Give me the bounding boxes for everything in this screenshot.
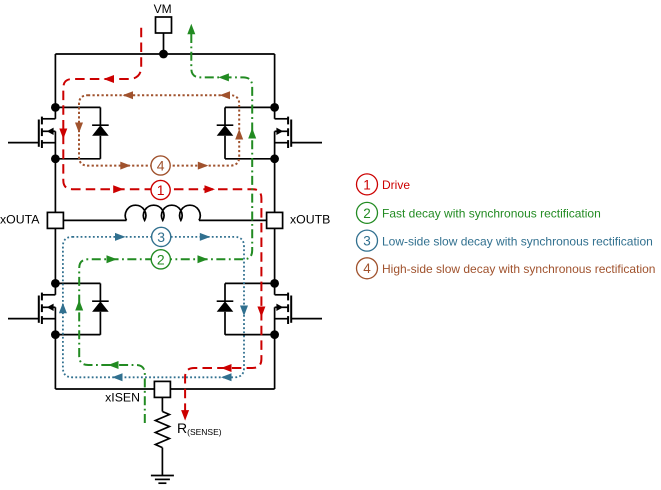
wire right rail bottom <box>274 335 276 389</box>
svg-text:4: 4 <box>157 158 165 174</box>
wire bottom rail <box>55 388 274 390</box>
wire D3 bottom lead <box>55 334 100 336</box>
svg-text:2: 2 <box>363 206 371 221</box>
diode D1 body <box>92 107 109 158</box>
diode D2 body <box>217 107 234 158</box>
arrow brown up right-FET <box>235 129 243 140</box>
node label circle 4 <box>151 156 170 175</box>
arrow red right mid 2 <box>205 185 216 193</box>
node Q4 source <box>270 330 279 339</box>
arrow red left top <box>104 75 115 83</box>
wire VM stub <box>163 33 165 54</box>
node label circle 3 <box>152 227 171 246</box>
terminal xOUTB box <box>267 212 283 228</box>
arrow blue right top 2 <box>200 233 211 241</box>
svg-text:3: 3 <box>363 234 371 249</box>
arrow red left bottom <box>221 364 232 372</box>
wire left rail lower <box>54 229 56 284</box>
node Q1 source <box>51 154 60 163</box>
arrow green up right-FET <box>248 128 256 139</box>
svg-text:Fast decay with synchronous re: Fast decay with synchronous rectificatio… <box>382 207 601 221</box>
node VM junction <box>159 50 168 59</box>
wire left rail mid <box>54 159 56 213</box>
wire right rail upper <box>274 54 276 107</box>
wire D1 bottom lead <box>55 158 100 160</box>
wire xISEN to resistor <box>161 397 163 411</box>
svg-text:1: 1 <box>157 182 165 198</box>
wire D2 top lead <box>225 106 275 108</box>
arrow green left top <box>218 73 229 81</box>
svg-text:Drive: Drive <box>382 178 410 192</box>
wire OUTA to inductor <box>63 219 126 221</box>
node Q4 drain <box>270 279 279 288</box>
wire path 3 low-side slow decay (blue) <box>63 237 244 377</box>
arrow brown left top 2 <box>220 91 231 99</box>
svg-text:High-side slow decay with sync: High-side slow decay with synchronous re… <box>382 262 655 276</box>
svg-text:Low-side slow decay with synch: Low-side slow decay with synchronous rec… <box>382 234 653 248</box>
arrow green up left-FET <box>75 300 83 311</box>
node Q3 source <box>51 330 60 339</box>
legend item 3 circle <box>357 230 378 251</box>
node label circle 1 <box>151 180 170 199</box>
wire path 1 drive (red) <box>63 28 261 411</box>
transistor Q2 high-side right <box>275 107 322 158</box>
arrow brown right bottom 1 <box>120 162 131 170</box>
arrow brown right bottom 2 <box>198 162 209 170</box>
node Q3 drain <box>51 279 60 288</box>
wire D4 top lead <box>225 282 275 284</box>
transistor Q1 high-side left <box>8 107 55 158</box>
arrow blue left bottom 2 <box>221 373 232 381</box>
arrow blue up left-FET <box>59 303 67 314</box>
svg-text:R(SENSE): R(SENSE) <box>177 420 222 437</box>
arrow red right mid 1 <box>113 185 124 193</box>
diode D3 body <box>92 283 109 334</box>
legend item 1 circle <box>357 174 378 195</box>
wire D3 top lead <box>55 282 100 284</box>
svg-text:3: 3 <box>157 229 165 245</box>
arrow brown left top 1 <box>123 91 134 99</box>
svg-text:xISEN: xISEN <box>105 390 140 404</box>
terminal xOUTA box <box>47 212 63 228</box>
wire inductor to OUTB <box>199 219 267 221</box>
svg-text:xOUTB: xOUTB <box>290 212 330 226</box>
wire path 4 high-side slow decay (brown) <box>79 95 239 165</box>
arrow blue down right-FET <box>240 306 248 317</box>
node Q1 drain <box>51 103 60 112</box>
arrow blue right top 1 <box>115 233 126 241</box>
arrow blue left bottom 1 <box>112 373 123 381</box>
arrow red down to sense <box>181 410 189 421</box>
arrow green up to VM <box>187 24 195 35</box>
transistor Q4 low-side right <box>275 283 322 334</box>
wire right rail mid <box>274 159 276 213</box>
ground <box>151 476 174 484</box>
wire resistor to ground <box>161 448 163 476</box>
node Q2 source <box>270 154 279 163</box>
diode D4 body <box>217 283 234 334</box>
terminal xISEN box <box>154 381 170 397</box>
arrow green right mid 2 <box>198 255 209 263</box>
wire right rail lower <box>274 229 276 284</box>
wire left rail bottom <box>54 335 56 389</box>
wire D2 bottom lead <box>225 158 275 160</box>
legend item 2 circle <box>357 202 378 223</box>
arrow brown down left-FET <box>75 123 83 134</box>
wire D4 bottom lead <box>225 334 275 336</box>
legend item 4 circle <box>357 258 378 279</box>
terminal VM box <box>156 17 172 33</box>
svg-text:VM: VM <box>154 2 172 16</box>
wire left rail upper <box>54 54 56 107</box>
transistor Q3 low-side left <box>8 283 55 334</box>
node Q2 drain <box>270 103 279 112</box>
resistor R(SENSE) <box>155 412 169 448</box>
svg-text:2: 2 <box>157 251 165 267</box>
inductor motor winding <box>125 205 200 220</box>
arrow green right mid 1 <box>107 255 118 263</box>
wire path 2 fast decay (green) <box>79 31 252 423</box>
wire top rail <box>55 53 274 55</box>
arrow green left near ISEN <box>108 361 119 369</box>
svg-text:xOUTA: xOUTA <box>0 212 40 226</box>
arrow red down right-FET <box>257 307 265 318</box>
wire D1 top lead <box>55 106 100 108</box>
svg-text:1: 1 <box>363 177 371 192</box>
node label circle 2 <box>151 250 170 269</box>
svg-text:4: 4 <box>363 261 371 276</box>
arrow red down left-FET <box>59 129 67 140</box>
